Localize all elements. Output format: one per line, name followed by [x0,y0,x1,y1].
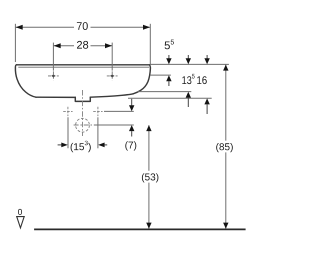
dim (85) lower arrow [223,223,228,229]
label (15.3) [71,141,91,153]
dimension 28 right arrow [105,43,112,48]
label (7) [125,141,136,150]
tap hole crosshair right [107,71,118,80]
dim 13.5 lower arrow [186,92,191,98]
label (85) [216,143,233,152]
dim (53) upper arrow [146,125,151,131]
dim (53) lower arrow [146,223,151,229]
label 5.5 [165,40,174,50]
label 16 [197,76,207,84]
reference line 5.5 lower [151,74,171,76]
dimension 70 line [15,24,150,67]
washbasin inner rim line [18,66,149,68]
dim 5.5 lower arrow [166,75,171,81]
dim (15.3) left arrow [58,144,62,146]
dim (15.3) left extension line [67,117,69,148]
dim 5.5 upper arrow [168,55,170,59]
floor line [34,228,246,230]
dim (85) upper arrow [223,65,228,71]
dimension 70 left arrow [16,25,23,30]
label 13.5 [182,74,194,84]
dim (53) line [148,125,150,228]
drain centreline vertical [82,90,84,136]
drain dashed circle [76,118,90,132]
dimension 70 right arrow [143,25,150,30]
drain centreline horizontal [74,124,94,126]
label (53) [142,173,159,182]
dim 13.5 upper arrow [187,55,189,59]
dimension 70 label [77,22,88,30]
rim reference line right [150,63,229,65]
fixing hole crosshair right [93,107,102,116]
reference line through drain centre [94,124,134,126]
dim (7) lower arrow [129,125,134,131]
reference line 13.5 lower [138,91,192,93]
dim (15.3) right arrow [98,143,105,148]
washbasin outer outline [15,65,150,102]
dimension 28 line [53,43,112,71]
dim (15.3) right extension line [97,117,99,148]
reference line through fixing holes [104,110,134,112]
dimension 28 label [77,41,88,49]
dim 16 lower arrow [204,98,209,104]
dimension 28 left arrow [54,43,61,48]
dim (7) upper arrow [131,99,133,106]
tap hole crosshair left [48,71,59,80]
reference line 16 lower [128,97,212,99]
dim 16 upper arrow [206,55,208,59]
datum label 0 [18,209,22,215]
datum triangle [17,217,25,228]
fixing hole crosshair left [63,107,72,116]
dim (85) line [225,65,227,229]
